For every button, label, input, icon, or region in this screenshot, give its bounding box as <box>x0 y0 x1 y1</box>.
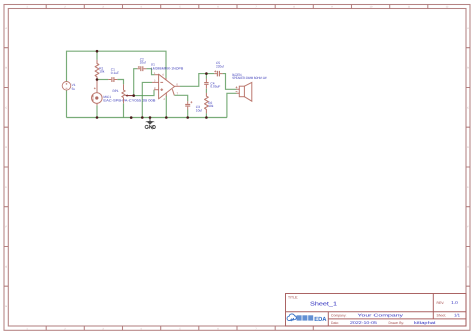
wire C5 right then down to speaker plus <box>223 74 237 90</box>
svg-text:LM386MMX-1NOPB: LM386MMX-1NOPB <box>151 66 184 70</box>
svg-text:SPEAKER 20MM 8OHM 1W: SPEAKER 20MM 8OHM 1W <box>232 76 266 80</box>
voltage source V1 <box>62 82 71 91</box>
op-amp U1 LM386 <box>152 74 180 99</box>
label RP1 <box>113 89 119 93</box>
svg-text:10uf: 10uf <box>140 61 146 65</box>
label C1 value 0.1uF <box>111 68 119 75</box>
U1 pin 6 stub <box>165 78 167 80</box>
svg-text:REV:: REV: <box>437 301 445 305</box>
capacitor C2 <box>137 66 146 71</box>
junction ground bus / U1 pin4 <box>165 116 168 119</box>
label C4 value 0.05uF <box>210 81 220 88</box>
capacitor C5 <box>214 71 222 77</box>
C2 plus mark <box>138 66 140 68</box>
speaker BUZZER1 <box>236 82 252 101</box>
wire RP1 bottom to ground bus <box>123 103 125 117</box>
label C5 value 220uf <box>216 61 224 68</box>
wire top supply bus from V1 to U1 pin6 <box>67 51 167 81</box>
resistor R1 <box>95 60 99 80</box>
wire C1 right down to RP1 top <box>117 80 123 85</box>
svg-text:C: C <box>467 106 469 109</box>
label C2 value 10uf <box>140 57 146 64</box>
svg-text:Sheet_1: Sheet_1 <box>310 301 337 308</box>
svg-text:D: D <box>5 146 7 149</box>
wire C3 bottom to ground bus <box>187 110 189 118</box>
svg-text:0.1uF: 0.1uF <box>111 71 119 75</box>
U1 non-inverting input plus sign <box>160 88 163 91</box>
svg-text:G: G <box>467 265 469 268</box>
U1 pin 5 stub <box>175 85 181 87</box>
svg-text:Drawn By:: Drawn By: <box>389 321 405 325</box>
svg-text:TITLE:: TITLE: <box>288 296 298 300</box>
svg-text:G: G <box>5 265 7 268</box>
svg-text:kittaphat: kittaphat <box>414 320 437 325</box>
svg-text:10k: 10k <box>99 70 105 74</box>
svg-text:0.05uF: 0.05uF <box>210 85 220 89</box>
svg-text:2022-10-05: 2022-10-05 <box>350 320 378 325</box>
junction ground bus segment joint <box>130 116 133 119</box>
U1 pin 1 stub <box>155 74 159 76</box>
svg-text:10uf: 10uf <box>196 108 202 112</box>
U1 pin 7 stub <box>172 89 174 95</box>
svg-text:RP1: RP1 <box>113 89 119 93</box>
U1 pin 3 stub <box>154 89 159 91</box>
wire C4 bottom to R2 top <box>205 89 207 93</box>
wire wiper node to U1 pin3 <box>134 90 154 96</box>
U1 pin 2 stub <box>152 81 159 83</box>
wire wiper node up to C2 left <box>134 69 138 96</box>
svg-text:H: H <box>5 305 7 308</box>
wire bottom ground bus <box>67 117 227 119</box>
wire V1 bottom to ground bus <box>66 90 68 117</box>
wire C4 top lead from output rail <box>205 74 207 79</box>
svg-text:10k: 10k <box>208 104 214 108</box>
wire top bus to R1 <box>96 51 98 60</box>
U1 pin numbers <box>154 72 179 101</box>
svg-text:1/1: 1/1 <box>454 313 461 318</box>
svg-text:Sheet:: Sheet: <box>437 313 447 317</box>
RP1 wiper arrow <box>125 94 134 96</box>
label MIC1 value <box>103 95 155 102</box>
wire U1 pin4 to ground bus <box>165 96 167 118</box>
potentiometer RP1 <box>122 84 125 103</box>
wire U1 pin5 output up to rail and C5 left <box>180 74 214 87</box>
svg-text:EDA: EDA <box>314 316 327 323</box>
junction ground bus / GND flag <box>149 116 152 119</box>
capacitor C1 <box>108 77 117 82</box>
label R1 value 10k <box>99 66 105 73</box>
U1 inverting input minus sign <box>160 81 163 83</box>
svg-text:1.0: 1.0 <box>451 300 458 305</box>
svg-text:Company:: Company: <box>331 313 347 317</box>
wire speaker minus down to ground bus <box>227 93 237 117</box>
junction ground bus / R2 <box>205 116 208 119</box>
wire input node to C1 left <box>97 79 108 81</box>
junction ground bus / C3 <box>186 116 189 119</box>
svg-text:EAC-SPB-PA-CY055 2B 00B: EAC-SPB-PA-CY055 2B 00B <box>103 98 155 102</box>
svg-text:C: C <box>5 106 7 109</box>
wire U1 pin2 to ground bus <box>142 82 152 117</box>
label V1 value 5v <box>72 83 76 91</box>
junction output rail / C4 <box>205 72 208 75</box>
junction ground bus / U1 pin2 <box>141 116 144 119</box>
label BUZZER1 value <box>232 73 266 80</box>
junction wiper node RP1/C2/U1 pin3 <box>132 94 135 97</box>
ground GND flag <box>145 118 155 129</box>
junction top bus / R1 <box>96 50 99 53</box>
wire C2 right to U1 pin1 <box>146 69 154 75</box>
resistor R2 <box>205 93 209 114</box>
svg-text:Your Company: Your Company <box>358 313 404 318</box>
C3 plus mark <box>190 101 192 103</box>
label R2 value 10k <box>208 101 214 108</box>
capacitor C3 <box>185 101 190 109</box>
wire R2 bottom to ground bus <box>205 113 207 117</box>
svg-text:Date:: Date: <box>331 321 339 325</box>
svg-text:5v: 5v <box>72 87 76 91</box>
svg-text:D: D <box>467 146 469 149</box>
label U1 value LM386MMX-1NOPB <box>151 63 184 71</box>
junction input node R1/C1/MIC1 <box>96 78 99 81</box>
microphone MIC1 <box>92 80 103 106</box>
capacitor C4 <box>204 79 208 89</box>
svg-text:220uf: 220uf <box>216 64 224 68</box>
U1 pin 4 stub <box>165 93 167 96</box>
label C3 value 10uf <box>196 105 202 112</box>
junction ground bus / MIC1 <box>96 116 99 119</box>
wire U1 pin7 to C3 top <box>174 95 187 101</box>
wire MIC1 bottom to ground bus <box>96 105 98 117</box>
C5 plus mark <box>214 70 216 72</box>
